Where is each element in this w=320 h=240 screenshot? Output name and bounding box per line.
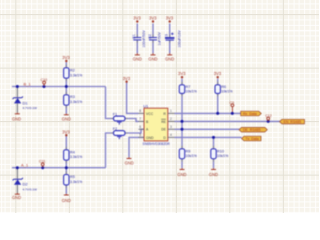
wire bias chain B lower	[65, 106, 67, 114]
svg-text:EN_RS485: EN_RS485	[284, 120, 302, 124]
wire B_1 horizontal	[12, 86, 106, 88]
wire row pin3 DE to port	[175, 128, 240, 130]
wire pullup R7 column (ties RE DE)	[181, 79, 183, 169]
ground under C2	[148, 53, 157, 61]
junction row1 pullup	[216, 112, 219, 115]
svg-text:R2: R2	[70, 69, 75, 73]
svg-text:3V3: 3V3	[123, 76, 131, 81]
svg-text:100uF/16V: 100uF/16V	[177, 30, 181, 48]
resistor R3	[64, 95, 83, 105]
svg-text:4.7V/0.1W: 4.7V/0.1W	[23, 187, 38, 191]
svg-text:6: 6	[139, 125, 141, 129]
resistor R5	[64, 175, 83, 185]
svg-text:RE: RE	[161, 120, 166, 124]
svg-text:GND: GND	[12, 116, 21, 121]
svg-text:GND: GND	[177, 172, 186, 177]
wire bias chain A lower	[65, 185, 67, 194]
zener diode D1	[13, 97, 37, 110]
junction on A_1 at zener	[16, 166, 19, 169]
svg-text:GND: GND	[62, 198, 71, 203]
wire cap C1	[136, 24, 138, 54]
svg-text:D2: D2	[23, 182, 29, 187]
wire A_1 horizontal	[12, 167, 106, 169]
op-amp U1 RS485 transceiver	[143, 103, 171, 146]
pin 7 B	[139, 117, 150, 124]
svg-text:R10: R10	[217, 149, 224, 153]
svg-text:GND: GND	[133, 57, 142, 62]
resistor R4	[64, 150, 83, 160]
svg-text:1uF/50V: 1uF/50V	[158, 32, 162, 46]
pin 6 A	[139, 125, 150, 132]
svg-text:DE_RS485: DE_RS485	[243, 128, 261, 132]
zener diode D2	[13, 178, 37, 191]
svg-text:C2: C2	[148, 34, 152, 39]
svg-text:R4: R4	[70, 150, 75, 154]
pin 3 DE	[161, 125, 174, 132]
svg-text:3.3k/1%: 3.3k/1%	[70, 73, 82, 77]
wire B line vertical down to fuse	[106, 87, 114, 119]
svg-text:R9: R9	[186, 149, 191, 153]
fuse F2	[113, 127, 125, 139]
testpoint marker on A_1	[39, 160, 45, 168]
svg-text:F1: F1	[113, 112, 117, 116]
ground under D2	[12, 193, 21, 200]
svg-text:GND: GND	[12, 195, 21, 200]
wire A line vertical up to fuse	[106, 133, 114, 168]
svg-text:R6: R6	[221, 85, 226, 89]
svg-text:10k/1%: 10k/1%	[221, 90, 232, 94]
pin 5 GND	[139, 133, 155, 140]
junction on B_1 at bias chain	[65, 85, 68, 88]
ground under R5	[62, 194, 71, 203]
wire row pin1 R to port	[175, 112, 241, 114]
port EN_RS485	[280, 119, 305, 124]
power port 3V3 for R6	[214, 71, 222, 78]
ground under R9	[177, 168, 186, 177]
pin stubs gray overlays	[66, 35, 217, 188]
svg-text:4: 4	[170, 133, 172, 137]
svg-text:C1: C1	[132, 34, 136, 39]
svg-text:100nF/50V: 100nF/50V	[142, 30, 146, 48]
pin 4 D	[163, 133, 174, 140]
svg-text:10k/1%: 10k/1%	[186, 154, 197, 158]
power port 3V3 for C3	[166, 15, 174, 22]
svg-text:10k/1%: 10k/1%	[186, 90, 197, 94]
resistor R10	[211, 149, 229, 159]
svg-text:3V3: 3V3	[178, 71, 186, 76]
wire bias chain A mid	[65, 160, 67, 174]
svg-text:GND: GND	[209, 172, 218, 177]
svg-text:U1: U1	[143, 103, 149, 108]
svg-text:GND: GND	[146, 136, 154, 140]
wire cap C3	[169, 24, 171, 54]
svg-text:3.3k/1%: 3.3k/1%	[70, 180, 82, 184]
junction row3 tie	[181, 128, 184, 131]
power port 3V3 for R7	[178, 71, 186, 78]
wire pin 5 GND	[129, 137, 144, 157]
svg-text:R7: R7	[186, 85, 191, 89]
wire bias chain A upper	[65, 136, 67, 150]
wire cap C2	[152, 24, 154, 54]
port Rx_Data	[241, 111, 262, 116]
svg-text:4.7V/0.1W: 4.7V/0.1W	[23, 106, 38, 110]
junction on A_1 at marker	[41, 166, 44, 169]
svg-text:SN65HVD3082DR: SN65HVD3082DR	[143, 142, 171, 146]
wire fuse F1 to pin 7	[125, 119, 139, 122]
junction on B_1 at marker	[43, 85, 46, 88]
svg-text:3.3k/1%: 3.3k/1%	[70, 100, 82, 104]
fuse F1	[113, 112, 125, 124]
wire fuse F2 to pin 6	[125, 129, 144, 133]
port Tx_Data	[242, 136, 262, 141]
svg-text:D1: D1	[23, 100, 29, 105]
wire 3V3 to pin 8 VCC	[127, 83, 139, 114]
svg-text:2: 2	[170, 117, 172, 121]
ground under C3	[165, 53, 174, 61]
pin 2 RE	[161, 117, 174, 124]
ground under C1	[133, 53, 142, 61]
ground under R10	[209, 168, 218, 177]
svg-text:1: 1	[170, 109, 172, 113]
junction row2 marker	[267, 120, 270, 123]
power port 3V3 bias chain B	[62, 55, 70, 62]
testpoint marker on row1	[229, 101, 234, 113]
junction row2 tie	[181, 120, 184, 123]
power port 3V3 bias chain A	[62, 129, 70, 136]
wire zener D1 stubs	[16, 87, 18, 113]
svg-text:3V3: 3V3	[62, 55, 70, 60]
svg-text:7: 7	[139, 117, 141, 121]
power port 3V3 for VCC	[123, 76, 131, 83]
ground under D1	[12, 113, 21, 122]
svg-text:3V3: 3V3	[149, 15, 157, 20]
svg-text:B_1: B_1	[24, 81, 32, 86]
testpoint marker on row2	[265, 114, 272, 121]
resistor R6	[215, 85, 233, 94]
svg-text:GND: GND	[62, 117, 71, 122]
svg-text:3.3k/1%: 3.3k/1%	[70, 155, 82, 159]
junction row4 pulldown	[212, 136, 215, 139]
svg-text:R5: R5	[70, 175, 75, 179]
junction row1 marker	[231, 112, 234, 115]
resistor R9	[179, 149, 197, 159]
wire row pin2 RE to port	[175, 120, 281, 122]
ground under R3	[62, 114, 71, 122]
pin 1 R	[163, 109, 174, 116]
junction on B_1 at zener	[16, 85, 19, 88]
svg-text:3: 3	[170, 125, 172, 129]
svg-text:A_1: A_1	[21, 163, 29, 168]
wire row pin4 D to port	[175, 136, 242, 138]
svg-text:GND: GND	[148, 57, 157, 62]
svg-text:8: 8	[139, 109, 141, 113]
svg-text:R3: R3	[70, 95, 75, 99]
svg-text:10k/1%: 10k/1%	[217, 154, 228, 158]
svg-text:3V3: 3V3	[166, 15, 174, 20]
wire pulldown R10 column	[213, 137, 215, 168]
pin 8 VCC	[139, 109, 154, 116]
wire zener D2 stubs	[16, 168, 18, 193]
svg-text:3V3: 3V3	[214, 71, 222, 76]
svg-text:Rx_Data: Rx_Data	[243, 112, 257, 116]
wire bias chain B upper	[65, 62, 67, 68]
wire pullup R6 column	[217, 79, 219, 114]
wire bias chain B mid	[65, 78, 67, 95]
svg-text:DE: DE	[161, 128, 166, 132]
svg-text:Tx_Data: Tx_Data	[246, 137, 259, 141]
svg-text:VCC: VCC	[146, 112, 154, 116]
testpoint marker on B_1	[41, 78, 48, 86]
resistor R2	[64, 68, 83, 78]
svg-text:F2: F2	[113, 127, 117, 131]
capacitor C1	[132, 30, 146, 48]
power port 3V3 for C2	[149, 15, 157, 22]
capacitor C2	[148, 32, 162, 46]
ground under pin 5	[125, 157, 134, 165]
port DE_RS485	[239, 127, 267, 132]
svg-text:C3: C3	[165, 34, 169, 39]
svg-text:GND: GND	[125, 160, 134, 165]
svg-text:5: 5	[139, 133, 141, 137]
svg-text:3V3: 3V3	[62, 129, 70, 134]
power port 3V3 for C1	[133, 15, 141, 22]
junction on A_1 at bias chain	[65, 166, 68, 169]
resistor R7	[179, 85, 197, 94]
svg-text:GND: GND	[165, 57, 174, 62]
capacitor C3 polarized	[165, 30, 182, 48]
svg-text:3V3: 3V3	[133, 15, 141, 20]
